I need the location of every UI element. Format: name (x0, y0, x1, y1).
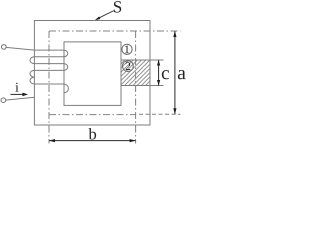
leader line from S to core top edge (97, 11, 114, 20)
coil turn crossing wires on left leg (34, 57, 63, 84)
core outer boundary rectangle (34, 21, 150, 126)
centerline bottom extension right for dimension a (139, 113, 181, 115)
coil right-side loop bumps on window edge (64, 50, 69, 93)
dimension a line with arrows (174, 31, 176, 114)
dimension label a (178, 70, 186, 79)
bottom terminal circle (1, 98, 6, 103)
core inner window rectangle (64, 42, 121, 106)
top terminal circle (2, 45, 7, 50)
circled region label 1 (122, 44, 132, 54)
hatched gap section (2) in right leg (121, 60, 150, 86)
mean path centerline right (dash-dot), extended down for dimension b (135, 31, 137, 144)
gap top edge / extension line (121, 59, 164, 61)
current label i (15, 83, 18, 92)
gap bottom edge / extension line (121, 85, 164, 87)
dimension label c (162, 70, 169, 79)
label S (114, 1, 121, 12)
mean path centerline left (dash-dot), extended down for dimension b (48, 31, 50, 144)
dimension c line with arrows (158, 60, 160, 86)
current direction arrow (11, 93, 25, 95)
top lead wire to coil (6, 47, 64, 50)
coil left-side loop bumps on outer edge (30, 57, 34, 84)
bottom lead wire from coil (6, 97, 35, 100)
circled region label 2 (123, 61, 134, 72)
dimension label b (89, 128, 97, 140)
mean path centerline bottom (dash-dot) (49, 114, 136, 116)
dimension b line with arrows (49, 140, 136, 142)
mean path centerline top (dash-dot), extended right for dimension a (49, 30, 181, 32)
